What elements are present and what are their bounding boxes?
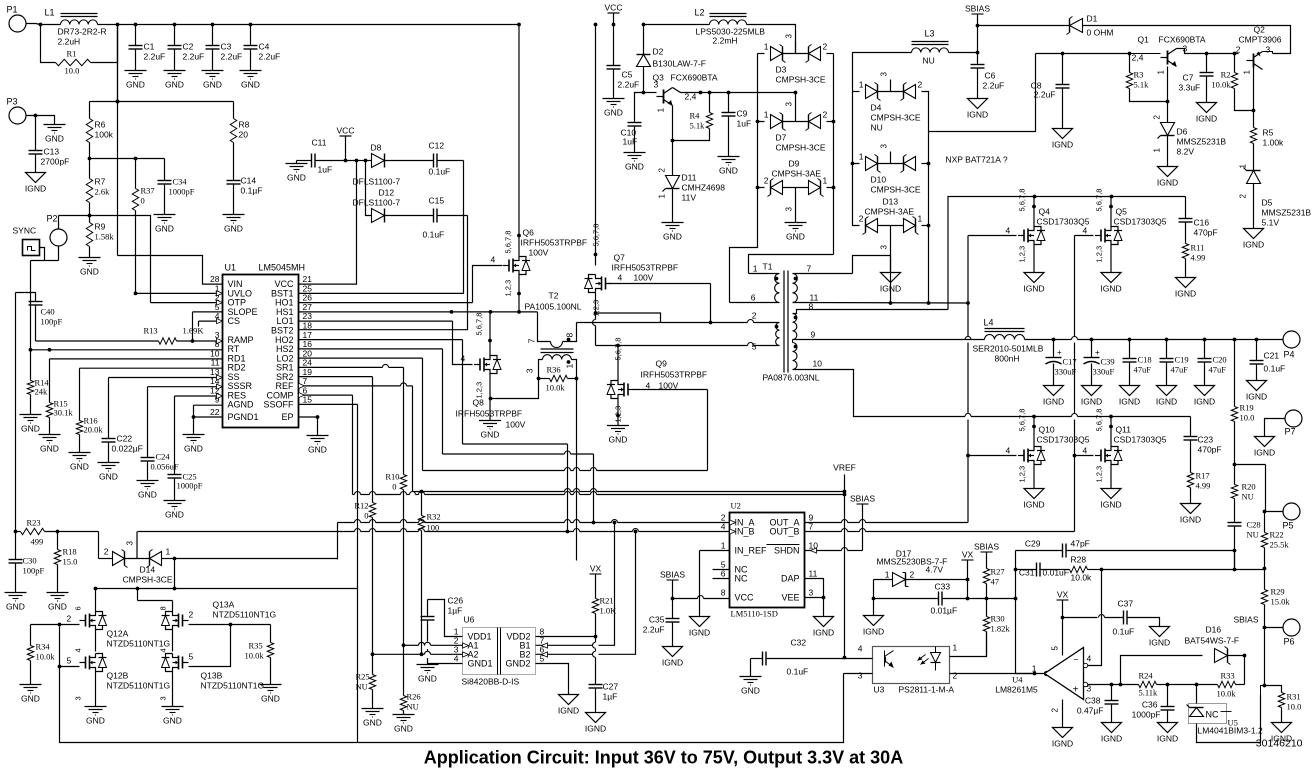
svg-text:9: 9 <box>811 330 816 340</box>
svg-text:2.6k: 2.6k <box>95 187 111 197</box>
svg-text:1: 1 <box>1239 164 1248 169</box>
svg-text:11: 11 <box>809 569 818 579</box>
wire <box>1196 685 1198 704</box>
capacitor C33 <box>874 582 987 616</box>
svg-text:L4: L4 <box>984 318 994 328</box>
resistor R24 <box>1121 671 1170 698</box>
svg-text:2: 2 <box>752 311 757 321</box>
svg-text:GND: GND <box>6 602 25 612</box>
capacitor C4 <box>244 23 281 71</box>
wire Q7 gate to T1-2 <box>608 283 711 285</box>
transistor Q7 <box>585 224 679 317</box>
svg-text:VCC: VCC <box>735 593 755 603</box>
caption <box>424 748 903 768</box>
svg-text:IRFH5053TRPBF: IRFH5053TRPBF <box>521 238 588 248</box>
wire <box>1112 416 1191 418</box>
resistor R34 <box>27 625 59 685</box>
wire <box>673 88 758 95</box>
svg-text:Q2: Q2 <box>1254 25 1266 35</box>
wire <box>1244 656 1246 685</box>
svg-text:470pF: 470pF <box>1198 445 1222 455</box>
transistor Q11 <box>1083 409 1167 483</box>
ground IGND <box>1271 723 1292 744</box>
svg-text:470pF: 470pF <box>1194 228 1218 238</box>
svg-text:0.1uF: 0.1uF <box>423 230 445 240</box>
wire OUT_B <box>805 529 1075 532</box>
svg-text:IGND: IGND <box>25 184 46 194</box>
wire <box>1062 700 1064 728</box>
diode D1 <box>978 14 1291 54</box>
ground <box>718 157 740 176</box>
svg-text:NU: NU <box>1242 492 1254 502</box>
node <box>39 23 120 27</box>
wire <box>1197 695 1261 743</box>
svg-text:C2: C2 <box>183 42 194 52</box>
wire <box>15 532 17 560</box>
svg-text:5,6,7,8: 5,6,7,8 <box>504 231 513 254</box>
svg-text:0.1µF: 0.1µF <box>241 186 263 196</box>
svg-text:IGND: IGND <box>1023 500 1044 510</box>
svg-text:R25: R25 <box>356 672 370 682</box>
resistor R8 <box>230 102 249 181</box>
svg-text:4.7V: 4.7V <box>926 565 944 575</box>
svg-text:P7: P7 <box>1285 427 1296 437</box>
capacitor C18 <box>1123 340 1152 386</box>
wire <box>1233 463 1266 467</box>
svg-text:5: 5 <box>1051 646 1060 651</box>
svg-text:D2: D2 <box>653 47 664 57</box>
wire REF <box>299 383 413 386</box>
svg-text:C20: C20 <box>1213 355 1227 365</box>
ground <box>479 421 501 440</box>
svg-text:GND: GND <box>741 686 760 696</box>
svg-text:100pF: 100pF <box>41 317 63 327</box>
capacitor C3 <box>206 23 243 71</box>
svg-text:20: 20 <box>239 130 249 140</box>
resistor R26 <box>400 645 420 714</box>
svg-text:10.0k: 10.0k <box>36 652 56 662</box>
svg-text:SHDN: SHDN <box>774 546 800 556</box>
capacitor C25 <box>168 396 203 501</box>
svg-text:3: 3 <box>858 671 863 681</box>
wire <box>948 195 1186 310</box>
svg-text:NU: NU <box>356 682 368 692</box>
wire AGND <box>192 405 223 434</box>
ground IGND <box>1052 129 1073 150</box>
svg-text:D16: D16 <box>1206 625 1222 635</box>
svg-text:3: 3 <box>880 245 889 250</box>
svg-text:4: 4 <box>1087 654 1092 664</box>
wire <box>1111 685 1113 693</box>
svg-text:0.1uF: 0.1uF <box>1113 627 1135 637</box>
wire <box>357 404 359 742</box>
wire <box>136 587 173 601</box>
wire CS <box>199 321 223 326</box>
svg-text:1: 1 <box>1032 664 1037 674</box>
svg-text:GND: GND <box>45 134 64 144</box>
wire <box>136 532 138 559</box>
diode D2 <box>637 23 706 95</box>
resistor R9 <box>86 214 114 258</box>
capacitor C10 <box>621 93 644 153</box>
svg-text:10.0k: 10.0k <box>546 383 566 393</box>
wire DAP VEE <box>805 579 826 617</box>
resistor R2 <box>1211 54 1252 111</box>
svg-text:IGND: IGND <box>1052 140 1073 150</box>
svg-text:GND: GND <box>165 510 184 520</box>
ground <box>98 463 120 482</box>
svg-text:10.0: 10.0 <box>1287 702 1302 712</box>
ground IGND <box>1043 386 1064 407</box>
svg-text:6: 6 <box>751 293 756 303</box>
svg-text:330uF: 330uF <box>1093 367 1115 377</box>
wire <box>927 132 931 305</box>
svg-text:PA0876.003NL: PA0876.003NL <box>763 373 820 383</box>
resistor R32 <box>418 492 440 655</box>
wire <box>96 589 173 612</box>
capacitor C39 <box>1084 340 1115 386</box>
diode D10 <box>859 144 921 195</box>
svg-text:IN_REF: IN_REF <box>735 546 768 556</box>
svg-text:47pF: 47pF <box>1071 539 1090 549</box>
svg-text:2.2uF: 2.2uF <box>144 52 166 62</box>
pin arrows U2 <box>730 520 817 553</box>
svg-text:2.2mH: 2.2mH <box>713 36 738 46</box>
wire <box>90 216 151 303</box>
svg-text:C37: C37 <box>1118 599 1134 609</box>
wire B2 <box>536 532 636 655</box>
svg-text:D13: D13 <box>883 197 899 207</box>
ground <box>662 223 684 242</box>
svg-text:CMPSH-3AE: CMPSH-3AE <box>772 169 822 179</box>
svg-text:1.00k: 1.00k <box>1263 138 1285 148</box>
capacitor C9 <box>722 93 752 157</box>
wire <box>15 293 17 532</box>
transistor Q12A <box>67 606 171 648</box>
svg-text:330uF: 330uF <box>1055 367 1077 377</box>
ground <box>69 453 91 472</box>
capacitor C31 <box>1016 563 1070 578</box>
svg-text:1,2,3: 1,2,3 <box>504 280 513 297</box>
wire <box>1036 52 1132 56</box>
svg-text:SER2010-501MLB: SER2010-501MLB <box>973 344 1044 354</box>
svg-text:4: 4 <box>1006 226 1011 236</box>
ground <box>125 71 147 90</box>
wire <box>1166 67 1170 123</box>
svg-text:IGND: IGND <box>813 628 834 638</box>
wire OTP <box>151 302 223 304</box>
svg-text:GND: GND <box>48 602 67 612</box>
svg-text:IGND: IGND <box>662 658 683 668</box>
wire SSOFF <box>299 403 358 405</box>
winding 2-5 <box>596 311 780 352</box>
svg-text:5: 5 <box>67 656 72 666</box>
wire pin3 <box>844 671 873 681</box>
port P4 <box>1283 331 1300 360</box>
resistor R27 <box>983 567 1004 601</box>
svg-text:GND: GND <box>99 472 118 482</box>
wire <box>463 443 568 445</box>
svg-text:NU: NU <box>923 56 935 66</box>
svg-text:R27: R27 <box>991 567 1005 577</box>
ground <box>5 593 27 612</box>
svg-text:10.0k: 10.0k <box>1211 80 1231 90</box>
wire <box>88 157 165 161</box>
svg-text:L3: L3 <box>925 29 935 39</box>
svg-text:1: 1 <box>1243 70 1252 75</box>
capacitor C22 <box>102 378 143 463</box>
ground IGND <box>1100 489 1121 510</box>
svg-text:P5: P5 <box>1283 521 1294 531</box>
svg-text:C14: C14 <box>241 176 257 186</box>
svg-text:GND: GND <box>40 444 59 454</box>
svg-text:1: 1 <box>764 42 769 52</box>
resistor R35 <box>231 625 274 685</box>
svg-text:R24: R24 <box>1139 671 1154 681</box>
svg-text:SBIAS: SBIAS <box>965 4 990 14</box>
wire <box>442 349 444 454</box>
svg-text:1: 1 <box>565 364 575 369</box>
svg-text:C30: C30 <box>23 556 37 566</box>
svg-text:NC: NC <box>735 574 748 584</box>
wire to Q6 gate <box>473 266 503 303</box>
svg-text:VCC: VCC <box>605 3 623 13</box>
svg-text:T2: T2 <box>549 291 559 301</box>
diode D14 <box>99 532 177 585</box>
ground <box>417 665 439 684</box>
capacitor C37 <box>1063 599 1160 637</box>
wire <box>843 492 847 660</box>
wire Q5 gate <box>1075 235 1094 237</box>
transistor Q13A <box>159 600 277 630</box>
ground IGND <box>689 617 710 638</box>
svg-text:T1: T1 <box>763 262 773 272</box>
svg-text:C6: C6 <box>985 71 996 81</box>
ground <box>47 593 69 612</box>
wire VREF line <box>413 489 845 494</box>
svg-text:MMSZ5231B: MMSZ5231B <box>1177 137 1227 147</box>
svg-text:2.2uF: 2.2uF <box>183 52 205 62</box>
svg-text:Application Circuit: Input 36V: Application Circuit: Input 36V to 75V, O… <box>424 748 903 768</box>
op-amp U1 LM5045MH controller <box>210 263 312 428</box>
resistor R4 <box>673 93 713 141</box>
svg-text:IGND: IGND <box>1157 734 1178 744</box>
wire <box>412 386 414 492</box>
svg-text:PGND1: PGND1 <box>228 412 259 422</box>
wire A2 <box>371 651 463 656</box>
svg-text:1: 1 <box>1157 70 1166 75</box>
svg-text:2: 2 <box>189 610 194 620</box>
wire <box>1014 551 1018 572</box>
svg-text:Q13B: Q13B <box>201 671 223 681</box>
diode D4 <box>859 72 923 133</box>
resistor R25 <box>356 654 376 708</box>
svg-text:C19: C19 <box>1175 355 1189 365</box>
capacitor C14 <box>227 176 263 215</box>
svg-text:5,6,7,8: 5,6,7,8 <box>592 224 601 247</box>
wire RES <box>175 395 223 397</box>
svg-text:LM4041BIM3-1.2: LM4041BIM3-1.2 <box>1198 726 1263 736</box>
wire <box>929 54 1036 132</box>
resistor R15 <box>46 359 73 435</box>
svg-text:DR73-2R2-R: DR73-2R2-R <box>58 27 107 37</box>
svg-text:3: 3 <box>126 541 135 546</box>
svg-text:5,6,7,8: 5,6,7,8 <box>1018 189 1027 212</box>
zener D11 <box>658 141 726 223</box>
svg-text:1: 1 <box>953 643 958 653</box>
svg-text:1uF: 1uF <box>623 137 638 147</box>
svg-text:GND: GND <box>719 166 738 176</box>
svg-text:LM5045MH: LM5045MH <box>259 263 306 273</box>
svg-text:CMPSH-3CE: CMPSH-3CE <box>123 575 173 585</box>
diode D13 <box>859 197 923 250</box>
wire <box>443 451 594 454</box>
wire <box>851 92 931 166</box>
svg-text:VX: VX <box>590 564 602 574</box>
svg-text:VEE: VEE <box>781 593 799 603</box>
power VCC <box>605 3 623 27</box>
svg-text:7: 7 <box>807 264 812 274</box>
net SBIAS <box>974 542 999 569</box>
capacitor C11 <box>297 138 357 175</box>
wire pin1 <box>950 633 987 657</box>
svg-text:10: 10 <box>813 359 823 369</box>
svg-text:GND: GND <box>224 224 243 234</box>
capacitor C1 <box>129 23 166 71</box>
svg-text:NTZD5110NT1G: NTZD5110NT1G <box>213 610 277 620</box>
wire <box>423 468 708 471</box>
ground <box>20 415 42 434</box>
wire <box>756 122 836 190</box>
svg-text:2700pF: 2700pF <box>41 157 70 167</box>
svg-text:+: + <box>1057 348 1062 357</box>
svg-text:IGND: IGND <box>1196 114 1217 124</box>
resistor R16 <box>76 368 103 452</box>
wire Q9 gate <box>634 389 708 391</box>
capacitor C40 <box>16 293 63 342</box>
svg-text:0 OHM: 0 OHM <box>1087 28 1114 38</box>
svg-text:C4: C4 <box>259 42 270 52</box>
capacitor C7 <box>1179 54 1214 103</box>
winding 7-11 <box>793 264 970 305</box>
svg-text:1: 1 <box>764 110 769 120</box>
svg-text:1000pF: 1000pF <box>1132 710 1161 720</box>
svg-text:GND: GND <box>203 80 222 90</box>
transistor Q3 <box>653 73 718 113</box>
wire <box>58 665 80 669</box>
wire <box>1109 197 1113 273</box>
wire <box>1130 49 1209 56</box>
svg-text:BAT54WS-7-F: BAT54WS-7-F <box>1185 636 1240 646</box>
svg-text:499: 499 <box>31 537 44 547</box>
capacitor C16 <box>1179 197 1218 244</box>
svg-text:IGND: IGND <box>1100 500 1121 510</box>
svg-text:IGND: IGND <box>967 110 988 120</box>
wire <box>949 52 978 54</box>
svg-text:IN_B: IN_B <box>735 527 755 537</box>
svg-text:1uF: 1uF <box>318 165 333 175</box>
svg-text:NTZD5110NT1G: NTZD5110NT1G <box>107 639 171 649</box>
svg-text:IGND: IGND <box>1081 397 1102 407</box>
svg-text:0: 0 <box>392 482 396 492</box>
wire BST1 <box>299 161 464 294</box>
svg-text:IGND: IGND <box>689 628 710 638</box>
wire IN_A <box>338 520 730 525</box>
ground <box>260 685 282 704</box>
ground IGND <box>1156 386 1177 407</box>
svg-text:2.2uF: 2.2uF <box>983 81 1005 91</box>
svg-text:C3: C3 <box>221 42 232 52</box>
wire D14 out <box>174 559 176 589</box>
ground <box>39 435 61 454</box>
svg-text:R30: R30 <box>991 614 1005 624</box>
svg-text:GND2: GND2 <box>505 659 530 669</box>
svg-text:VX: VX <box>1057 590 1069 600</box>
svg-text:24k: 24k <box>35 387 49 397</box>
svg-text:0.022µF: 0.022µF <box>112 444 143 454</box>
svg-text:GND: GND <box>80 267 99 277</box>
wire <box>1032 197 1036 273</box>
svg-text:15.0k: 15.0k <box>1271 597 1291 607</box>
capacitor C34 <box>158 159 195 215</box>
resistor R21 <box>592 596 617 637</box>
resistor R7 <box>86 159 110 223</box>
wire <box>117 25 119 256</box>
svg-text:Q4: Q4 <box>1039 207 1051 217</box>
wire <box>747 25 796 53</box>
svg-text:R20: R20 <box>1242 482 1256 492</box>
wire B1 <box>536 523 615 646</box>
wire SR1 <box>299 364 404 367</box>
svg-text:R29: R29 <box>1271 587 1285 597</box>
wire SLOPE <box>191 312 223 343</box>
resistor R23 <box>14 518 99 547</box>
svg-text:C23: C23 <box>1198 435 1214 445</box>
wire SR2 <box>299 376 373 378</box>
wire <box>593 293 661 346</box>
svg-text:SBIAS: SBIAS <box>850 494 875 504</box>
svg-text:GND: GND <box>786 232 805 242</box>
sync connector <box>13 226 40 256</box>
svg-text:C24: C24 <box>156 452 171 462</box>
svg-text:GND: GND <box>138 490 157 500</box>
svg-text:DAP: DAP <box>781 574 800 584</box>
op-amp U6 Si8420 isolator <box>454 615 545 687</box>
resistor R30 <box>983 599 1010 657</box>
resistor R13 <box>144 326 205 345</box>
svg-text:CMPSH-3CE: CMPSH-3CE <box>776 143 826 153</box>
svg-text:D8: D8 <box>371 143 382 153</box>
svg-text:IGND: IGND <box>1052 739 1073 749</box>
svg-text:1,2,3: 1,2,3 <box>1095 246 1104 263</box>
svg-text:1: 1 <box>823 176 828 186</box>
resistor R1 <box>41 25 118 76</box>
net VX <box>962 550 974 601</box>
wire <box>616 344 620 426</box>
ground IGND <box>1196 103 1217 124</box>
svg-text:3: 3 <box>785 207 794 212</box>
ground <box>785 223 807 242</box>
winding 3-1 <box>525 355 577 379</box>
svg-text:47uF: 47uF <box>1209 365 1227 375</box>
net VX <box>1057 590 1069 620</box>
svg-text:10.0: 10.0 <box>1240 413 1255 423</box>
svg-text:IGND: IGND <box>1023 284 1044 294</box>
svg-text:8: 8 <box>809 302 814 312</box>
wire Q11 gate <box>1075 455 1094 457</box>
svg-text:C28: C28 <box>1247 520 1261 530</box>
svg-text:C39: C39 <box>1101 357 1115 367</box>
